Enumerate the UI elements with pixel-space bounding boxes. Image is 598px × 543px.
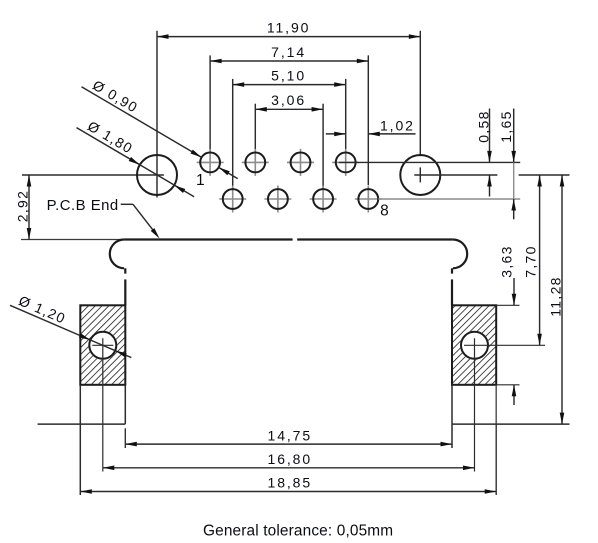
dimension 1,02	[326, 118, 416, 137]
dimension 5,10 (top)	[233, 67, 346, 87]
right ear arc	[453, 239, 468, 268]
right mounting hole (Ø1,20)	[461, 332, 488, 359]
pin 6 crosshair	[264, 186, 291, 213]
hole Ø1,80 right inner crosshair	[419, 167, 421, 182]
pin 7 (Ø0,90)	[313, 189, 333, 209]
pin 4 crosshair	[332, 149, 359, 176]
pin 1 (Ø0,90)	[200, 153, 220, 173]
extension line pin 2	[254, 104, 256, 152]
left ear arc	[110, 239, 125, 268]
extension line pin 4	[345, 79, 347, 173]
dimension 1,65	[498, 109, 516, 220]
left mounting hole mask	[88, 331, 117, 360]
leader Ø 1,20 (mounting hole diameter)	[10, 292, 131, 357]
svg-text:P.C.B End: P.C.B End	[47, 198, 119, 214]
svg-text:8: 8	[380, 203, 389, 220]
pin 8 (Ø0,90)	[358, 189, 378, 209]
pin 5 crosshair	[219, 186, 246, 213]
dimension 7,70	[522, 175, 542, 345]
pin 1 crosshair	[197, 149, 224, 176]
dimension 7,14 (top)	[210, 44, 368, 64]
leader Ø 1,80 (hole diameter)	[77, 118, 195, 197]
pin 2 crosshair	[242, 149, 269, 176]
hole Ø1,80 left	[137, 155, 177, 195]
pin 7 crosshair	[310, 186, 337, 213]
hole Ø1,80 left horizontal centerline	[22, 174, 164, 176]
left bracket hatched block	[80, 305, 125, 385]
dimension 11,90 (top)	[157, 19, 420, 39]
hole Ø1,80 right	[400, 155, 440, 195]
dimension 3,63	[498, 245, 516, 405]
dimension 16,80 (bottom)	[103, 451, 475, 470]
top pin row reference line	[339, 161, 520, 163]
svg-text:1,65: 1,65	[498, 110, 514, 142]
svg-text:1: 1	[196, 172, 205, 189]
PCB end line	[21, 239, 124, 241]
bracket top edge extension	[496, 304, 519, 306]
body left side line	[124, 268, 126, 305]
dimension 0,58	[475, 109, 492, 197]
connector body top edge	[124, 238, 452, 240]
dimension 11,28	[547, 175, 564, 424]
extension line left Ø1,80 hole	[156, 31, 158, 198]
pin 2 (Ø0,90)	[245, 153, 265, 173]
svg-text:18,85: 18,85	[268, 475, 313, 491]
bracket bottom edge extension	[496, 384, 519, 386]
right hole crosshair	[464, 338, 545, 471]
dimension 18,85 (bottom)	[80, 475, 496, 494]
svg-text:11,90: 11,90	[267, 19, 311, 35]
right bracket hatched block	[452, 305, 496, 385]
extension line pin 5	[232, 79, 234, 188]
body right side line	[451, 268, 453, 305]
pin 5 (Ø0,90)	[223, 189, 243, 209]
extension line right Ø1,80 hole	[419, 31, 421, 156]
svg-text:16,80: 16,80	[268, 451, 313, 467]
svg-text:2,92: 2,92	[14, 190, 30, 222]
pin 8 crosshair	[355, 186, 382, 213]
dimension 14,75 (bottom)	[125, 427, 452, 446]
svg-text:7,14: 7,14	[271, 44, 306, 60]
svg-text:3,63: 3,63	[498, 245, 514, 277]
leader Ø 0,90 (pin diameter)	[82, 77, 238, 179]
P.C.B End label and leader	[47, 198, 160, 238]
pin 3 crosshair	[287, 149, 314, 176]
extension line pin 7	[322, 104, 324, 189]
svg-text:3,06: 3,06	[271, 92, 306, 108]
svg-text:5,10: 5,10	[271, 67, 306, 83]
extension line pin 1	[209, 55, 211, 151]
left mounting hole (Ø1,20)	[89, 332, 116, 359]
svg-text:11,28: 11,28	[547, 276, 563, 317]
svg-text:1,02: 1,02	[380, 118, 415, 134]
pin 1 label	[196, 172, 205, 189]
pin 3 (Ø0,90)	[291, 153, 311, 173]
general tolerance note	[203, 523, 393, 540]
svg-text:0,58: 0,58	[475, 110, 491, 142]
right mounting hole mask	[460, 331, 489, 360]
dimension 3,06 (top)	[255, 92, 323, 112]
dimension 2,92	[14, 175, 31, 240]
left hole crosshair	[92, 338, 113, 471]
hole centerline right segment	[414, 174, 569, 176]
pin 4 (Ø0,90)	[336, 153, 356, 173]
right bracket lower block	[452, 385, 570, 495]
pin 6 (Ø0,90)	[268, 189, 288, 209]
extension line pin 8	[367, 55, 369, 204]
svg-text:14,75: 14,75	[268, 427, 313, 443]
svg-text:7,70: 7,70	[522, 245, 538, 277]
left bracket lower block	[38, 385, 126, 495]
bottom pin row reference line (gray)	[378, 198, 520, 200]
svg-text:General tolerance: 0,05mm: General tolerance: 0,05mm	[203, 523, 393, 540]
pin 8 label	[380, 203, 389, 220]
